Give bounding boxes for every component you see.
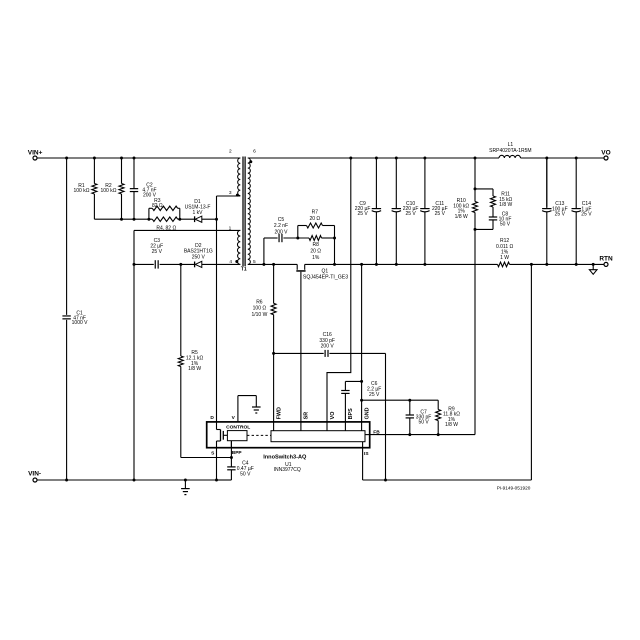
svg-text:BPS: BPS [348, 408, 354, 419]
svg-text:6: 6 [253, 148, 256, 154]
svg-text:200 V: 200 V [274, 229, 288, 235]
svg-text:INN3977CQ: INN3977CQ [274, 467, 301, 473]
svg-text:100 Ω: 100 Ω [253, 306, 267, 312]
svg-text:D: D [210, 415, 214, 421]
svg-text:SR: SR [304, 412, 310, 420]
svg-text:PI-9149-051920: PI-9149-051920 [497, 486, 531, 491]
svg-text:C5: C5 [278, 217, 285, 223]
svg-text:R8: R8 [312, 242, 319, 248]
svg-text:FWD: FWD [276, 407, 282, 419]
svg-text:25 V: 25 V [581, 212, 592, 218]
svg-text:25 V: 25 V [152, 249, 163, 255]
svg-text:VIN-: VIN- [28, 470, 41, 477]
svg-text:BPP: BPP [232, 450, 243, 456]
svg-text:1 kV: 1 kV [192, 210, 203, 216]
svg-text:1/8 W: 1/8 W [455, 214, 468, 220]
svg-text:T1: T1 [241, 267, 247, 273]
svg-text:25 V: 25 V [369, 392, 380, 398]
svg-text:25 V: 25 V [357, 211, 368, 217]
svg-text:CONTROL: CONTROL [226, 424, 250, 430]
svg-text:20 Ω: 20 Ω [310, 248, 321, 254]
svg-text:50 V: 50 V [240, 471, 251, 477]
svg-text:1/8 W: 1/8 W [499, 202, 512, 208]
svg-text:1: 1 [229, 225, 232, 231]
svg-text:IS: IS [364, 451, 369, 457]
svg-text:20 Ω: 20 Ω [309, 216, 320, 222]
svg-text:R4, 82 Ω: R4, 82 Ω [156, 225, 176, 231]
svg-text:R6: R6 [256, 299, 263, 305]
svg-text:50 V: 50 V [500, 221, 511, 227]
svg-text:1%: 1% [312, 255, 320, 261]
svg-text:1/8 W: 1/8 W [188, 366, 201, 372]
svg-text:SQJ454EP-TI_GE3: SQJ454EP-TI_GE3 [303, 274, 348, 280]
svg-text:1/8 W: 1/8 W [445, 422, 458, 428]
svg-text:GND: GND [364, 407, 370, 419]
svg-text:1000 V: 1000 V [72, 320, 89, 326]
svg-text:VO: VO [601, 150, 610, 157]
svg-text:2: 2 [229, 148, 232, 154]
svg-text:FB: FB [373, 429, 380, 435]
svg-text:200 V: 200 V [321, 343, 335, 349]
svg-text:25 V: 25 V [555, 212, 566, 218]
svg-text:InnoSwitch3-AQ: InnoSwitch3-AQ [263, 454, 307, 460]
svg-text:1 W: 1 W [500, 255, 509, 261]
svg-text:100 kΩ: 100 kΩ [101, 188, 117, 194]
svg-text:RTN: RTN [599, 256, 613, 263]
svg-text:R7: R7 [312, 209, 319, 215]
svg-text:100 kΩ: 100 kΩ [74, 188, 90, 194]
svg-text:VO: VO [330, 412, 336, 420]
svg-text:250 V: 250 V [192, 254, 206, 260]
svg-text:50 V: 50 V [418, 419, 429, 425]
svg-text:25 V: 25 V [405, 211, 416, 217]
svg-text:1/10 W: 1/10 W [251, 312, 267, 318]
svg-text:82 Ω: 82 Ω [152, 203, 163, 209]
svg-text:VIN+: VIN+ [28, 150, 43, 157]
svg-text:3: 3 [229, 190, 232, 196]
svg-text:SRP4020TA-1R5M: SRP4020TA-1R5M [489, 148, 531, 154]
svg-text:25 V: 25 V [435, 211, 446, 217]
svg-text:4: 4 [229, 259, 232, 265]
svg-text:2.2 nF: 2.2 nF [274, 223, 288, 229]
